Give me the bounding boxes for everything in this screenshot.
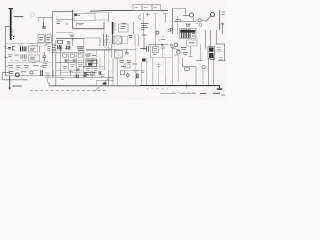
output transformer T4 (208, 47, 215, 60)
wire diagonal (94, 77, 111, 92)
wire (189, 46, 193, 57)
wire (37, 17, 52, 19)
aerial coil bottom blob (10, 35, 15, 39)
label AERIAL (14, 16, 24, 18)
node B (72, 38, 74, 40)
label marks (121, 23, 127, 28)
node E (83, 66, 84, 67)
label marks (86, 69, 91, 71)
label marks (219, 58, 224, 60)
wire long vertical center-left (52, 22, 54, 79)
detector diode D2 (177, 51, 180, 54)
resistor R12 box (153, 46, 159, 52)
label marks (141, 71, 145, 73)
wire (69, 70, 73, 76)
capacitor C12 (140, 46, 148, 52)
label marks (217, 48, 222, 52)
comps center low (120, 61, 138, 67)
wire (204, 30, 206, 49)
wire verticals right (173, 44, 179, 86)
bottom center comps (85, 73, 97, 75)
wire (218, 60, 226, 62)
label marks (146, 13, 151, 17)
wire block top (5, 43, 52, 45)
label marks (134, 71, 139, 73)
wire (48, 70, 54, 83)
wire (83, 39, 85, 46)
wire ladder verticals (92, 58, 100, 78)
capacitor C18 (77, 68, 79, 71)
resistor R10 box (119, 24, 128, 32)
wire grid bus (56, 38, 84, 40)
label marks (30, 48, 36, 50)
wire (72, 39, 74, 46)
capacitor C13 (125, 50, 129, 54)
wire top bus dark (90, 9, 168, 12)
bottom-left comps row (9, 72, 27, 74)
label marks (70, 65, 83, 67)
wire (56, 75, 96, 77)
earpiece jack J1 (202, 66, 205, 69)
wire (196, 60, 203, 62)
page mark (222, 94, 226, 96)
wire diagonal rotor (44, 42, 50, 46)
terminal circle2 (199, 24, 202, 27)
wire faint dash (146, 88, 168, 90)
IF transformer T3 (180, 28, 197, 38)
resistor R5 (62, 54, 66, 57)
wire (56, 52, 84, 54)
switch S1 boxes (133, 5, 161, 11)
label marks (186, 24, 191, 26)
label marks (161, 39, 166, 41)
wire (56, 69, 84, 71)
label marks (85, 55, 96, 57)
wire (174, 21, 196, 23)
node D (186, 85, 188, 87)
label marks (30, 44, 36, 46)
transformer T1 (86, 59, 97, 67)
wire (172, 9, 185, 16)
resistor R17 box (123, 37, 128, 44)
wire blue band (86, 49, 112, 51)
wire (84, 78, 113, 81)
capacitor C6 (43, 52, 47, 61)
capacitor C15 (174, 43, 178, 47)
resistor R8 (196, 20, 206, 22)
label marks (105, 37, 111, 43)
wire (120, 70, 140, 72)
wire (37, 42, 39, 50)
label row marks (8, 54, 26, 59)
resistor R13 (93, 60, 97, 63)
wire (84, 38, 100, 46)
wire block bottom (5, 75, 56, 77)
node H (5, 56, 7, 58)
wire bottom bus dark (140, 85, 220, 87)
resistor R16 box (124, 64, 130, 68)
resistor R6 (70, 54, 74, 57)
label marks (79, 24, 83, 26)
diode D1 (120, 71, 129, 77)
left mid labels (57, 23, 69, 26)
wire T mark (142, 35, 147, 50)
wire (103, 29, 105, 34)
transistor Q1 (12, 46, 15, 51)
coil former box (105, 40, 112, 48)
wire top bus left (53, 11, 73, 13)
label marks (153, 54, 157, 56)
label marks (196, 23, 199, 25)
label marks (101, 75, 106, 77)
tuning gang C3 (38, 35, 51, 43)
wire left drop (5, 27, 10, 76)
transistor Q4 (206, 12, 215, 21)
wire (216, 30, 224, 61)
wire (135, 34, 139, 46)
coil L1 box (74, 14, 95, 21)
label marks under band (87, 54, 92, 56)
volume pot VR1 (15, 73, 19, 77)
wire right top (171, 9, 173, 35)
label marks (45, 73, 51, 77)
wire speaker leads (209, 58, 214, 86)
terminal circle (170, 28, 173, 31)
wire (104, 50, 106, 70)
oscillator coil L4 (113, 22, 116, 34)
label marks low (60, 77, 79, 80)
wire drops to bus (97, 69, 204, 88)
antenna A1 (8, 8, 13, 40)
label marks (221, 12, 226, 34)
wire (177, 16, 179, 34)
caption dark (200, 92, 220, 94)
polarity mark (170, 44, 173, 47)
wire dashed chassis (30, 90, 108, 92)
wire (2, 73, 27, 80)
wire (163, 14, 167, 23)
label marks (94, 69, 99, 71)
label marks rail (52, 45, 57, 52)
scribble marks (174, 49, 181, 55)
wire (37, 18, 39, 22)
resistor R9 (78, 54, 82, 57)
wire internal (8, 62, 52, 64)
label marks (157, 65, 161, 67)
coil L3 bars (21, 46, 26, 51)
capacitor C9 (189, 13, 193, 17)
mixer block (114, 36, 122, 44)
capacitor C1 trimmer (31, 13, 35, 17)
coil L5 hatch (58, 45, 61, 49)
wire dark vertical (73, 10, 104, 29)
dark blob near bus (103, 82, 106, 84)
resistor R1 (58, 40, 63, 43)
capacitor C17 (84, 72, 86, 77)
label BATT (12, 85, 22, 87)
wire (155, 32, 157, 46)
wire verticals (60, 46, 84, 78)
wire (108, 70, 110, 86)
label marks (189, 42, 195, 44)
node C (161, 44, 163, 46)
label marks (30, 57, 35, 59)
switch S2 (30, 71, 33, 74)
resistor R18 box (91, 72, 95, 75)
wire faint (84, 12, 112, 14)
capacitor C16 arc (57, 21, 60, 22)
grid cap terminal (168, 29, 171, 32)
resistor R3 box (29, 46, 40, 52)
label marks fill2 (10, 61, 27, 70)
wire (108, 44, 110, 70)
wire faint dash (172, 92, 196, 94)
label marks (158, 37, 165, 40)
coil L2 (104, 34, 107, 46)
label marks (161, 47, 166, 49)
wire (192, 17, 194, 22)
label marks (210, 59, 215, 61)
label marks osc (141, 24, 149, 30)
wire verticals right-center (142, 58, 153, 86)
IF transformer T2 box (114, 51, 122, 59)
wire (43, 18, 45, 24)
wire (56, 32, 73, 34)
wire (108, 13, 110, 22)
capacitor C20 arc (139, 15, 142, 20)
wire (56, 62, 84, 64)
dark blob (142, 59, 146, 62)
resistor R11 (185, 68, 190, 71)
wire (96, 50, 98, 58)
label marks (154, 48, 158, 50)
wire (209, 30, 211, 49)
wire (150, 57, 172, 59)
wire (183, 15, 189, 17)
wire (95, 19, 109, 21)
caption text (160, 92, 196, 94)
label marks (63, 66, 68, 68)
label marks (128, 36, 132, 38)
battery tap stubs (5, 49, 8, 67)
battery lead (8, 76, 11, 90)
wire (153, 14, 157, 33)
label R2 (70, 35, 75, 37)
capacitor C14 (136, 74, 138, 79)
wire (133, 22, 135, 34)
capacitor C4 (42, 22, 46, 28)
coil hatch small (77, 74, 79, 78)
resistor R14 (48, 47, 51, 51)
wire (48, 82, 50, 86)
wire (111, 44, 113, 58)
detector block outline (55, 40, 57, 86)
node F (91, 72, 92, 73)
dark cluster marks (77, 47, 84, 51)
ground (219, 86, 221, 89)
label marks (171, 48, 189, 55)
wire (165, 58, 167, 75)
node A (72, 11, 73, 12)
wire (112, 49, 136, 51)
wire (77, 22, 84, 26)
resistor R15 box (187, 40, 198, 46)
wire (56, 76, 84, 78)
resistor R4 box (29, 55, 40, 61)
coil L6 hatch (67, 46, 70, 50)
valve V1 (156, 31, 159, 34)
mid row marks (8, 66, 48, 68)
wire (158, 62, 160, 86)
capacitor C11 (73, 59, 75, 62)
wire L-corner (183, 58, 196, 86)
resistor R7 (176, 19, 180, 21)
wire ladder rows (60, 61, 104, 73)
wire (52, 12, 54, 22)
wire (148, 44, 168, 46)
capacitor C10 (198, 19, 201, 22)
capacitor C5 (8, 48, 10, 50)
wire (150, 45, 162, 58)
wire right edge (219, 10, 221, 30)
wire (112, 34, 114, 44)
wire (135, 46, 137, 78)
capacitor C19 (99, 71, 101, 74)
wire (200, 44, 202, 61)
node G (5, 46, 7, 48)
capacitor C2 (68, 41, 70, 45)
wire second (56, 19, 73, 21)
wire verticals (113, 58, 117, 86)
wire bottom bus (49, 85, 140, 87)
capacitor C8 (65, 59, 67, 62)
label marks (17, 44, 24, 46)
label marks (58, 48, 69, 50)
capacitor C7 (41, 70, 43, 76)
label marks fill (31, 62, 48, 71)
wire (143, 13, 145, 35)
